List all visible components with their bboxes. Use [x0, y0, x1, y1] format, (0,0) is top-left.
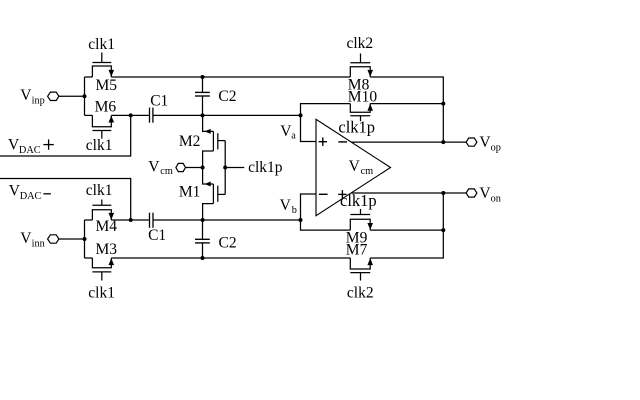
svg-text:C1: C1 — [148, 227, 166, 244]
svg-text:M2: M2 — [179, 133, 201, 150]
svg-text:clk1p: clk1p — [340, 191, 377, 210]
svg-text:clk1p: clk1p — [338, 117, 375, 136]
svg-text:DAC: DAC — [19, 145, 41, 156]
svg-text:a: a — [291, 131, 296, 142]
svg-text:C1: C1 — [150, 93, 168, 110]
svg-text:cm: cm — [361, 166, 374, 177]
svg-text:V: V — [479, 134, 491, 151]
svg-text:clk1: clk1 — [86, 182, 113, 199]
svg-text:clk1: clk1 — [88, 285, 115, 302]
svg-text:op: op — [491, 143, 501, 154]
svg-text:V: V — [479, 185, 491, 202]
svg-text:V: V — [20, 87, 32, 104]
svg-text:M3: M3 — [96, 241, 118, 258]
svg-text:clk2: clk2 — [347, 285, 374, 302]
svg-text:b: b — [292, 205, 297, 216]
svg-text:M6: M6 — [95, 99, 117, 116]
svg-text:cm: cm — [160, 166, 173, 177]
svg-text:V: V — [280, 197, 292, 214]
svg-text:M1: M1 — [179, 183, 201, 200]
svg-text:C2: C2 — [219, 234, 237, 251]
svg-text:V: V — [20, 230, 32, 247]
svg-text:clk1: clk1 — [88, 36, 115, 53]
svg-text:M4: M4 — [96, 218, 118, 235]
svg-text:M10: M10 — [348, 88, 378, 105]
svg-text:DAC: DAC — [20, 191, 42, 202]
svg-text:V: V — [349, 158, 361, 175]
svg-text:clk2: clk2 — [347, 35, 374, 52]
svg-text:C2: C2 — [218, 88, 236, 105]
svg-text:inn: inn — [32, 238, 45, 249]
svg-text:on: on — [491, 193, 501, 204]
svg-text:V: V — [148, 159, 160, 176]
svg-text:M7: M7 — [346, 242, 368, 259]
svg-text:clk1p: clk1p — [248, 159, 283, 176]
svg-text:clk1: clk1 — [86, 137, 113, 154]
svg-text:inp: inp — [32, 95, 45, 106]
svg-text:M5: M5 — [96, 77, 118, 94]
